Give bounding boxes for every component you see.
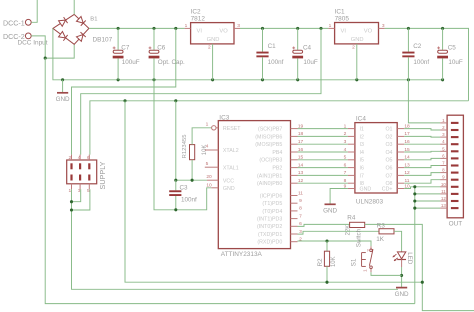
- svg-text:2: 2: [442, 125, 445, 130]
- svg-text:3: 3: [442, 132, 445, 137]
- svg-text:(RXD)PD0: (RXD)PD0: [257, 240, 282, 246]
- svg-text:100nf: 100nf: [268, 59, 284, 66]
- svg-text:(MOSI)PB5: (MOSI)PB5: [255, 142, 282, 148]
- svg-text:4: 4: [78, 155, 81, 161]
- svg-text:1K: 1K: [376, 236, 385, 243]
- svg-text:(AIN1)PB1: (AIN1)PB1: [257, 173, 282, 179]
- junction R2 top: [325, 239, 328, 242]
- wire pullup loop to R2/R4: [125, 101, 422, 282]
- svg-text:I2: I2: [360, 134, 364, 140]
- svg-text:VO: VO: [364, 29, 373, 35]
- svg-text:6: 6: [442, 153, 445, 158]
- wire DCC-2 long loop down/bottom: [45, 58, 415, 304]
- svg-text:2: 2: [352, 44, 355, 50]
- svg-text:C7: C7: [121, 45, 130, 52]
- svg-text:R4: R4: [347, 214, 356, 221]
- svg-text:GND: GND: [360, 186, 372, 192]
- wire GND feed from C6 to IC3 GND: [154, 80, 211, 210]
- wire raw/+12V/+5V top rail: [89, 27, 185, 29]
- svg-text:1: 1: [442, 118, 445, 123]
- wire DCC-1 to top edge: [31, 0, 37, 22]
- svg-text:10: 10: [206, 182, 212, 188]
- svg-text:O6: O6: [385, 166, 392, 172]
- svg-text:PB4: PB4: [272, 150, 282, 156]
- svg-text:22K: 22K: [346, 225, 352, 236]
- wire R2 bottom to +5V loop: [326, 266, 328, 282]
- svg-text:VI: VI: [197, 28, 203, 34]
- svg-text:C1: C1: [268, 43, 277, 50]
- svg-text:9: 9: [299, 198, 302, 204]
- wire R1 bottom to VCC row: [191, 160, 193, 181]
- svg-text:(T1)PD5: (T1)PD5: [262, 201, 282, 207]
- resistor R4 22K: [346, 214, 365, 235]
- svg-text:(AIN0)PB0: (AIN0)PB0: [257, 181, 282, 187]
- svg-text:Opt. Cap.: Opt. Cap.: [158, 59, 185, 66]
- svg-text:10uF: 10uF: [303, 59, 318, 66]
- wire switch to LED gnd node: [371, 272, 402, 275]
- capacitor C5 10uF: [437, 28, 448, 79]
- junction LED/switch: [400, 274, 403, 277]
- svg-text:GND: GND: [223, 186, 235, 192]
- svg-text:R3: R3: [377, 222, 386, 229]
- wire GND to OUT pin1: [408, 80, 440, 123]
- svg-text:4: 4: [206, 144, 209, 150]
- wire bridge left corner to GND rail: [53, 28, 63, 79]
- svg-text:100nf: 100nf: [181, 196, 197, 203]
- svg-text:XTAL1: XTAL1: [223, 165, 239, 171]
- connector pin DCC-2: [3, 33, 31, 41]
- svg-text:2: 2: [344, 131, 347, 137]
- wire ULN GND pin to ground: [330, 189, 348, 204]
- wire supply row B +12V: [81, 28, 321, 154]
- svg-text:IC4: IC4: [356, 115, 366, 122]
- svg-text:ULN2803: ULN2803: [356, 198, 384, 205]
- svg-text:O5: O5: [385, 158, 392, 164]
- junction C3 bottom: [174, 208, 177, 211]
- svg-text:6: 6: [344, 162, 347, 168]
- svg-text:I7: I7: [360, 173, 364, 179]
- svg-text:O2: O2: [385, 134, 392, 140]
- svg-text:10K: 10K: [331, 256, 337, 267]
- wire R2 top: [326, 241, 328, 251]
- svg-text:5: 5: [442, 146, 445, 151]
- svg-text:(INT0)PD2: (INT0)PD2: [257, 224, 282, 230]
- svg-text:RESET: RESET: [223, 126, 241, 132]
- svg-text:8: 8: [344, 178, 347, 184]
- svg-text:8: 8: [299, 206, 302, 212]
- svg-text:Switch: Switch: [355, 228, 362, 247]
- wire IC1 GND to rail: [356, 44, 358, 80]
- voltage regulator IC1 7805: [328, 8, 384, 50]
- bridge rectifier B1 DB107: [53, 14, 113, 44]
- svg-text:B1: B1: [90, 17, 97, 23]
- svg-text:3: 3: [344, 139, 347, 145]
- svg-text:I3: I3: [360, 142, 364, 148]
- svg-text:IC2: IC2: [191, 8, 201, 15]
- svg-text:2: 2: [69, 155, 72, 161]
- svg-text:7: 7: [344, 170, 347, 176]
- svg-text:4: 4: [442, 139, 445, 144]
- svg-text:VI: VI: [341, 29, 347, 35]
- ground GND1: [56, 80, 70, 103]
- svg-text:PB2: PB2: [272, 166, 282, 172]
- driver IC4 ULN2803: [344, 115, 410, 205]
- svg-text:2: 2: [366, 249, 372, 252]
- svg-text:C6: C6: [157, 45, 166, 52]
- svg-text:I4: I4: [360, 150, 364, 156]
- svg-text:GND: GND: [56, 96, 70, 103]
- svg-text:I6: I6: [360, 166, 364, 172]
- svg-text:GND: GND: [323, 208, 337, 215]
- junction R2 bottom: [325, 281, 328, 284]
- connector pin DCC-1: [3, 19, 31, 27]
- svg-text:VO: VO: [219, 29, 228, 35]
- svg-text:O7: O7: [385, 173, 392, 179]
- wire PD1 to R3: [298, 231, 380, 234]
- svg-text:1: 1: [344, 123, 347, 129]
- resistor R3 1K: [376, 222, 394, 243]
- wire GND rail: [63, 79, 443, 81]
- wire R1 top to RESET: [192, 128, 211, 145]
- IC3 port D pins: [257, 190, 303, 245]
- wire PB0-PB7 to ULN inputs: [298, 129, 348, 184]
- junction +5V row taps: [123, 99, 126, 102]
- wire DCC-2 to bridge bottom: [31, 36, 74, 58]
- svg-text:100nf: 100nf: [413, 59, 429, 66]
- svg-text:8: 8: [442, 168, 445, 173]
- svg-text:1: 1: [363, 269, 369, 272]
- wire PD2 to R4: [298, 224, 350, 226]
- wire IC2 GND to rail: [212, 44, 214, 80]
- svg-text:GND: GND: [395, 291, 409, 298]
- svg-text:(OCI)PB3: (OCI)PB3: [259, 158, 282, 164]
- ground GND3 (LED): [395, 288, 409, 298]
- junction VCC row: [174, 179, 177, 182]
- junction supply gnd ties: [70, 200, 73, 203]
- svg-text:7: 7: [442, 161, 445, 166]
- microcontroller IC3 ATTINY2313A: [205, 114, 291, 258]
- wire ULN outputs to OUT pins 2-9: [404, 129, 440, 184]
- svg-text:DCC-1: DCC-1: [3, 19, 25, 27]
- svg-text:(MISO)PB6: (MISO)PB6: [255, 134, 282, 140]
- LED: [393, 251, 413, 267]
- junction DCC-2 net: [44, 57, 47, 60]
- svg-text:ATTINY2313A: ATTINY2313A: [221, 251, 263, 258]
- svg-text:R2: R2: [317, 258, 324, 267]
- svg-text:SUPPLY: SUPPLY: [98, 161, 107, 189]
- junction top rail taps: [117, 27, 120, 30]
- svg-text:OUT: OUT: [449, 221, 463, 228]
- wire VCC row: [176, 179, 207, 181]
- svg-text:7805: 7805: [335, 16, 350, 23]
- svg-text:CD+: CD+: [382, 186, 393, 192]
- connector OUT: [440, 115, 463, 228]
- svg-text:10: 10: [441, 182, 446, 187]
- svg-text:DB107: DB107: [93, 37, 113, 44]
- switch S1: [350, 228, 373, 272]
- svg-text:DCC Input: DCC Input: [18, 40, 48, 47]
- svg-text:S1: S1: [350, 258, 357, 266]
- svg-text:XTAL2: XTAL2: [223, 148, 239, 154]
- svg-text:C3: C3: [180, 185, 189, 192]
- svg-text:C2: C2: [413, 43, 422, 50]
- wire CD+ to OUT pins 10-13: [404, 187, 440, 304]
- svg-text:4: 4: [344, 147, 347, 153]
- capacitor C3 100nf: [169, 180, 197, 210]
- svg-text:20: 20: [206, 174, 212, 180]
- resistor R2 10K: [317, 251, 337, 267]
- svg-text:VCC: VCC: [223, 178, 234, 184]
- svg-text:O4: O4: [385, 150, 392, 156]
- svg-text:2: 2: [299, 237, 302, 243]
- capacitor C6 Opt. Cap.: [149, 28, 160, 79]
- svg-text:10uF: 10uF: [448, 59, 463, 66]
- svg-text:11: 11: [441, 189, 446, 194]
- svg-text:5: 5: [206, 161, 209, 167]
- svg-text:O3: O3: [385, 142, 392, 148]
- svg-text:13: 13: [441, 203, 446, 208]
- capacitor C1 100nf: [256, 28, 283, 79]
- capacitor C7 100uF: [113, 28, 124, 79]
- svg-text:I5: I5: [360, 158, 364, 164]
- svg-text:I1: I1: [360, 127, 364, 133]
- svg-text:IC1: IC1: [335, 8, 345, 15]
- svg-text:3: 3: [382, 23, 385, 29]
- svg-text:C5: C5: [448, 45, 457, 52]
- svg-text:7812: 7812: [191, 16, 206, 23]
- svg-text:(TXD)PD1: (TXD)PD1: [258, 232, 282, 238]
- voltage regulator IC2 7812: [185, 8, 241, 50]
- svg-text:2: 2: [208, 44, 211, 50]
- svg-text:1: 1: [329, 23, 332, 29]
- svg-text:100uF: 100uF: [122, 59, 140, 66]
- wire PD0 to R2 and switch: [298, 241, 372, 246]
- capacitor C4 10uF: [292, 28, 303, 79]
- svg-text:9: 9: [442, 175, 445, 180]
- svg-text:6: 6: [87, 155, 90, 161]
- junction +5V loop / R4 net: [421, 281, 424, 284]
- wire R4 right to +5V loop: [365, 224, 474, 310]
- wire supply row A raw: [72, 28, 176, 154]
- wire +5V feed to IC3 VCC: [175, 101, 177, 180]
- junction CD+ taps: [413, 185, 416, 188]
- wire supply gnd pins tie: [72, 189, 81, 201]
- resistor R1 10K: [182, 134, 208, 160]
- svg-text:GND: GND: [351, 37, 364, 43]
- wire bridge top corner to top edge: [73, 0, 75, 14]
- svg-text:GND: GND: [207, 37, 220, 43]
- svg-text:7: 7: [299, 213, 302, 219]
- svg-text:O1: O1: [385, 127, 392, 133]
- junction GND rail taps: [61, 78, 64, 81]
- svg-text:LED: LED: [406, 252, 413, 265]
- svg-text:1: 1: [206, 122, 209, 128]
- svg-text:5: 5: [344, 155, 347, 161]
- svg-text:(SCK)PB7: (SCK)PB7: [258, 127, 282, 133]
- svg-text:12: 12: [441, 196, 446, 201]
- svg-text:R123455: R123455: [182, 134, 188, 159]
- capacitor C2 100nf: [402, 28, 429, 79]
- wire LED cathode to GND: [401, 267, 403, 287]
- ground GND2 (ULN): [323, 204, 337, 214]
- svg-text:1: 1: [185, 23, 188, 29]
- svg-text:11: 11: [298, 190, 303, 196]
- wire supply row C +5V: [90, 101, 469, 155]
- connector SUPPLY: [67, 155, 107, 194]
- svg-text:(ICP)PD6: (ICP)PD6: [260, 193, 283, 199]
- svg-text:C4: C4: [303, 45, 312, 52]
- svg-text:(T0)PD4: (T0)PD4: [262, 209, 282, 215]
- IC3 port B pins: [255, 123, 303, 187]
- svg-text:(INT1)PD3: (INT1)PD3: [257, 217, 282, 223]
- wire R3 to LED anode: [394, 231, 402, 251]
- svg-text:3: 3: [237, 23, 240, 29]
